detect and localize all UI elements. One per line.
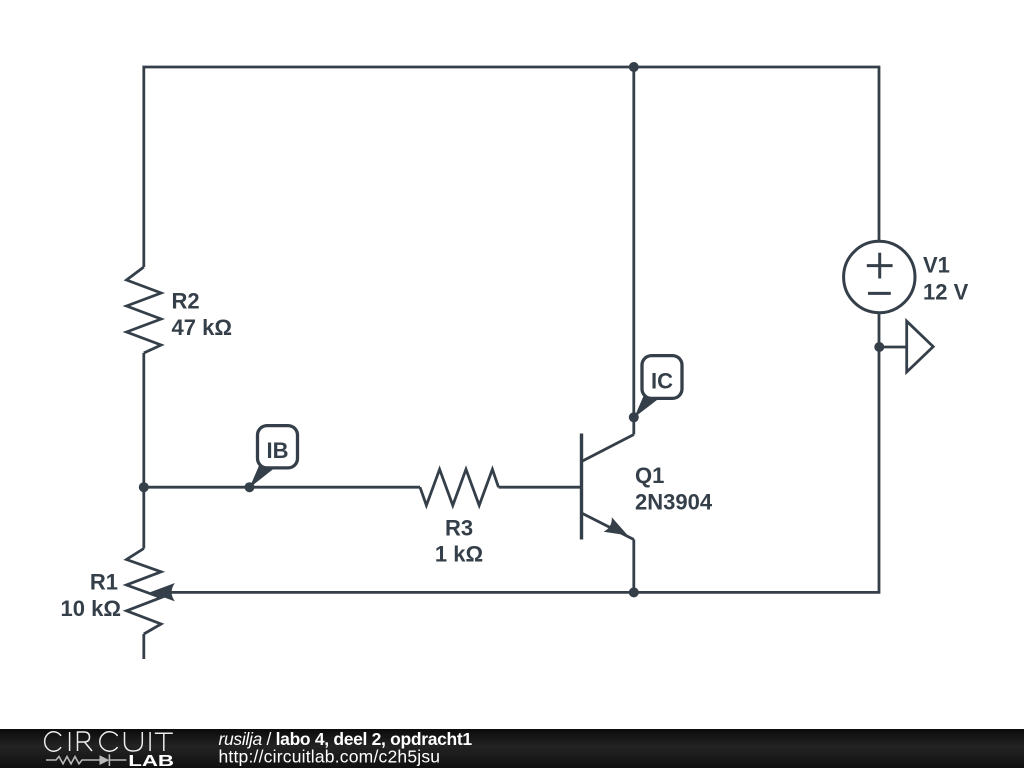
wire top rail	[144, 67, 879, 267]
svg-text:12 V: 12 V	[923, 280, 969, 305]
svg-text:10 kΩ: 10 kΩ	[61, 596, 121, 621]
wire left vertical R2 to node	[142, 353, 145, 487]
logo LAB text	[128, 753, 174, 768]
wire emitter vertical	[632, 540, 635, 593]
svg-text:LAB: LAB	[128, 753, 174, 768]
ground flag stub wire	[879, 346, 906, 349]
wire bottom rail	[170, 313, 879, 593]
voltage source V1	[844, 241, 915, 312]
potentiometer R1 wiper arrow	[150, 583, 175, 601]
svg-text:V1: V1	[923, 253, 950, 278]
transistor Q1	[582, 434, 634, 540]
logo diode triangle	[100, 755, 110, 765]
node dot ground flag	[874, 342, 884, 352]
svg-text:IC: IC	[651, 368, 673, 393]
node dot top rail / collector	[629, 62, 639, 72]
logo CIRCUIT letters	[45, 732, 173, 751]
resistor R2	[127, 267, 162, 353]
label R2 47 kΩ	[172, 289, 232, 340]
ground flag triangle	[907, 321, 934, 372]
node dot emitter / bottom rail	[629, 587, 639, 597]
wire base left of R3	[144, 486, 420, 489]
label Q1 2N3904	[635, 463, 713, 515]
node dot IB probe	[245, 482, 255, 492]
current probe IB box	[258, 426, 298, 468]
svg-text:R2: R2	[172, 289, 200, 314]
svg-text:R1: R1	[90, 570, 118, 595]
label V1 12 V	[923, 253, 969, 305]
node dot IC probe	[629, 412, 639, 422]
resistor R3	[420, 469, 499, 505]
svg-text:IB: IB	[267, 438, 289, 463]
current probe IB pointer	[250, 465, 280, 488]
svg-text:R3: R3	[445, 516, 473, 541]
svg-text:Q1: Q1	[635, 463, 664, 488]
label R3 1 kΩ	[435, 516, 483, 567]
svg-text:2N3904: 2N3904	[635, 490, 713, 515]
label R1 10 kΩ	[61, 570, 121, 621]
wire collector vertical	[632, 67, 635, 435]
current probe IC box	[642, 356, 682, 399]
node dot base junction	[139, 482, 149, 492]
transistor Q1 emitter arrowhead	[604, 517, 628, 535]
wire base right of R3	[499, 486, 581, 489]
svg-text:http://circuitlab.com/c2h5jsu: http://circuitlab.com/c2h5jsu	[219, 747, 441, 767]
svg-text:1 kΩ: 1 kΩ	[435, 542, 483, 567]
current probe IC pointer	[634, 395, 663, 418]
potentiometer R1	[127, 549, 162, 635]
logo squiggle resistor-diode	[46, 754, 126, 766]
wire node to R1 top	[142, 487, 145, 548]
svg-text:47 kΩ: 47 kΩ	[172, 315, 232, 340]
wire R1 bottom stub	[142, 634, 145, 659]
